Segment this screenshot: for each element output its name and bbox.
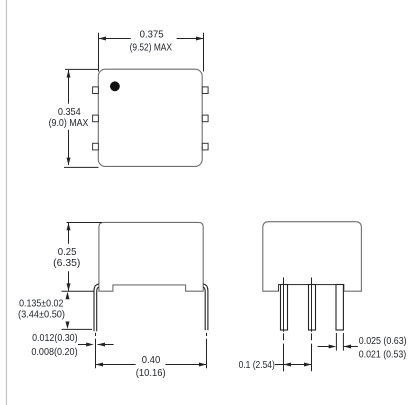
side view: lead 1 body <box>281 285 288 331</box>
dimension 0.135 standoff: upper arrowhead <box>66 292 70 300</box>
dimension 0.1 lead pitch: right arrowhead <box>304 363 312 367</box>
side view: lead 1 centerline upper <box>283 278 285 332</box>
dimension 0.40 lead span: left extension dash <box>95 333 97 336</box>
dimension 0.025/0.021 lead width: right arrowhead pointing left <box>344 345 352 349</box>
top view: right pin tab 3 <box>202 143 208 150</box>
svg-text:(6.35): (6.35) <box>53 258 80 269</box>
svg-text:0.40: 0.40 <box>142 355 161 366</box>
dimension 0.354 height: lower dim line segment <box>68 130 70 165</box>
top view: right pin tab 1 <box>202 87 208 94</box>
dimension 0.40 lead span: right dim line segment <box>166 364 207 366</box>
svg-text:0.25: 0.25 <box>58 247 77 258</box>
front view: right lead outer edge <box>203 284 208 330</box>
dimension 0.25 body height: top extension line <box>67 222 103 224</box>
dimension 0.1 lead pitch: dim line between centerlines <box>284 364 312 366</box>
side view: package body outline with recessed bottom <box>263 222 362 292</box>
svg-text:0.008(0.20): 0.008(0.20) <box>31 347 77 358</box>
svg-text:0.1 (2.54): 0.1 (2.54) <box>239 360 275 371</box>
dimension 0.135 standoff: bottom extension line <box>62 328 93 330</box>
svg-text:(3.44±0.50): (3.44±0.50) <box>18 310 65 321</box>
svg-text:(9.0) MAX: (9.0) MAX <box>49 118 89 129</box>
dimension 0.354 height: top extension line <box>65 68 99 70</box>
svg-text:0.012(0.30): 0.012(0.30) <box>32 333 78 344</box>
dimension 0.375 width: left extension line <box>98 33 100 72</box>
dimension 0.354 height: bottom extension line <box>64 166 99 168</box>
dimension 0.354 height: top arrowhead <box>67 70 71 78</box>
dimension 0.025/0.021 lead width: left extension line <box>335 333 337 351</box>
dimension 0.25 body height: top arrowhead <box>67 223 71 231</box>
dimension 0.012/0.008 lead thickness: left arrowhead pointing right <box>86 343 94 347</box>
side view: recessed bottom dark edge <box>279 285 344 292</box>
dimension 0.40 lead span: right extension dash <box>206 333 208 336</box>
svg-text:0.375: 0.375 <box>140 30 164 41</box>
dimension 0.40 lead span: left dim line segment <box>96 364 136 366</box>
svg-text:0.021 (0.53): 0.021 (0.53) <box>359 350 406 361</box>
dimension 0.025/0.021 lead width: right extension line <box>342 333 344 351</box>
side view: lead 3 body <box>336 285 343 331</box>
dimension 0.012/0.008 lead thickness: left arrow line <box>78 344 91 346</box>
side view: lead 1 centerline lower <box>283 344 285 372</box>
dimension 0.135 standoff: middle extension line <box>62 290 94 292</box>
dimension 0.25 body height: lower dim line segment <box>68 271 70 291</box>
dimension 0.40 lead span: left extension line <box>95 339 97 369</box>
dimension 0.012/0.008 lead thickness: right arrow line <box>98 344 114 346</box>
dimension 0.375 width: right arrowhead <box>196 37 204 41</box>
dimension 0.025/0.021 lead width: right arrow line <box>344 346 358 348</box>
dimension 0.354 height: upper dim line segment <box>68 70 70 104</box>
dimension 0.1 lead pitch: left arrowhead <box>284 363 292 367</box>
figure left border rule <box>6 0 7 405</box>
side view: lead 2 centerline upper <box>311 278 313 332</box>
top view: left pin tab 2 <box>93 115 99 122</box>
dimension 0.012/0.008 lead thickness: right arrowhead pointing left <box>98 343 106 347</box>
front view: left lead inner edge <box>97 287 99 331</box>
svg-text:0.354: 0.354 <box>58 107 81 118</box>
svg-text:(10.16): (10.16) <box>136 368 166 379</box>
dimension 0.25 body height: upper dim line segment <box>68 223 70 244</box>
dimension 0.40 lead span: left arrowhead <box>96 363 104 367</box>
dimension 0.25 body height: bottom arrowhead <box>67 283 71 291</box>
svg-text:0.025 (0.63): 0.025 (0.63) <box>359 336 407 347</box>
side view: lead 2 centerline lower <box>311 344 313 372</box>
side view: lead 2 centerline dash <box>311 333 313 340</box>
front view: left lead outer edge <box>94 284 99 331</box>
side view: lead 1 centerline dash <box>283 333 285 340</box>
top view: left pin tab 3 <box>93 143 99 150</box>
front view: right lead inner edge <box>203 287 205 330</box>
dimension 0.375 width: left dim line segment <box>99 38 131 40</box>
dimension 0.354 height: bottom arrowhead <box>67 158 71 166</box>
svg-text:(9.52) MAX: (9.52) MAX <box>130 42 172 53</box>
top view: package body outline <box>98 69 202 166</box>
dimension 0.375 width: right extension line <box>203 33 205 72</box>
dimension 0.375 width: right dim line segment <box>177 38 204 40</box>
svg-text:0.135±0.02: 0.135±0.02 <box>19 299 63 310</box>
top view: pin-1 index dot <box>110 81 120 91</box>
front view: package body outline with recessed bottom <box>99 222 203 291</box>
dimension 0.025/0.021 lead width: left arrow line <box>318 346 330 348</box>
top view: left pin tab 1 <box>93 87 99 94</box>
dimension 0.40 lead span: right extension line <box>206 339 208 369</box>
dimension 0.40 lead span: right arrowhead <box>199 363 207 367</box>
dimension 0.375 width: left arrowhead <box>99 37 107 41</box>
dimension 0.135 standoff: lower arrowhead <box>66 322 70 330</box>
dimension 0.025/0.021 lead width: left arrowhead pointing right <box>329 345 337 349</box>
side view: lead 2 body <box>309 285 316 331</box>
top view: right pin tab 2 <box>202 115 208 122</box>
dimension 0.1 lead pitch: leader line from text <box>275 364 284 366</box>
